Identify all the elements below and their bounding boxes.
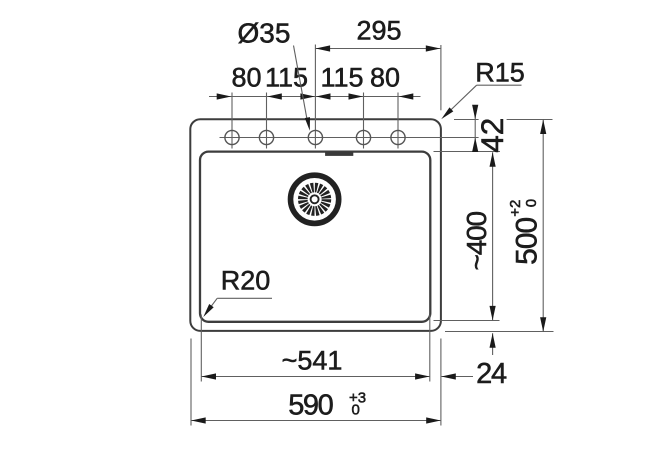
leader R20 (203, 298, 272, 317)
extension line bowl top right (434, 151, 501, 153)
drain outer ring (291, 175, 339, 223)
faucet holes centerline (220, 137, 481, 139)
extension line bowl left bottom (200, 315, 202, 382)
arrow at hole5 (outside, pointing left) (399, 93, 414, 99)
faucet hole 4 (356, 93, 370, 149)
dim 500 (540, 120, 546, 332)
svg-text:0: 0 (352, 402, 360, 419)
faucet hole 1 (225, 93, 239, 149)
extension line outer-right top (440, 45, 442, 110)
dim 24 horizontal (441, 373, 473, 379)
svg-text:80: 80 (370, 63, 400, 93)
svg-text:~400: ~400 (461, 212, 492, 271)
faucet hole 5 (391, 93, 405, 149)
arrow at hole2 (pointing left) (267, 93, 282, 99)
dim 24 vertical indicator (490, 333, 496, 355)
arrow at hole1 (outside, pointing right) (217, 93, 232, 99)
faucet hole 2 (259, 93, 273, 149)
dim 295 line (315, 45, 440, 51)
svg-text:0: 0 (523, 199, 540, 207)
extension line bowl right bottom (429, 315, 431, 382)
svg-text:~541: ~541 (282, 345, 343, 375)
svg-text:+2: +2 (507, 200, 524, 217)
extension line bowl bottom right (434, 320, 500, 322)
bowl outline (200, 152, 430, 322)
overflow mark (325, 152, 353, 156)
dim ~541 (201, 373, 429, 379)
svg-text:590: 590 (288, 390, 332, 422)
dim ~400 (490, 152, 496, 320)
svg-text:115: 115 (320, 63, 363, 93)
sink outer outline (190, 119, 441, 331)
arrow at hole4 (pointing right) (349, 93, 364, 99)
svg-text:500: 500 (510, 217, 543, 264)
extension line outer right bottom (440, 339, 442, 426)
svg-text:Ø35: Ø35 (238, 18, 291, 49)
white mask behind 42 label (479, 116, 507, 150)
svg-text:42: 42 (474, 118, 510, 153)
dim 590 +3/0 (191, 417, 441, 423)
leader R15 (441, 85, 521, 119)
svg-text:80: 80 (231, 63, 261, 93)
svg-text:295: 295 (356, 16, 401, 46)
svg-text:R20: R20 (221, 266, 271, 296)
extension line outer left bottom (190, 339, 192, 426)
extension line top edge right (454, 119, 553, 121)
label 500 +2/0 (rotated) (507, 199, 543, 265)
leader Ø35 (294, 46, 311, 131)
faucet hole 3 (308, 45, 322, 149)
dim line 80/115/115/80 (209, 96, 421, 98)
arrow pair at hole3 (300, 93, 315, 99)
svg-text:R15: R15 (475, 58, 525, 88)
extension line outer bottom right (445, 331, 554, 333)
dim 42 (472, 105, 478, 152)
drain strainer spokes (303, 188, 327, 212)
svg-text:24: 24 (476, 358, 507, 390)
drain center hole (311, 195, 319, 203)
